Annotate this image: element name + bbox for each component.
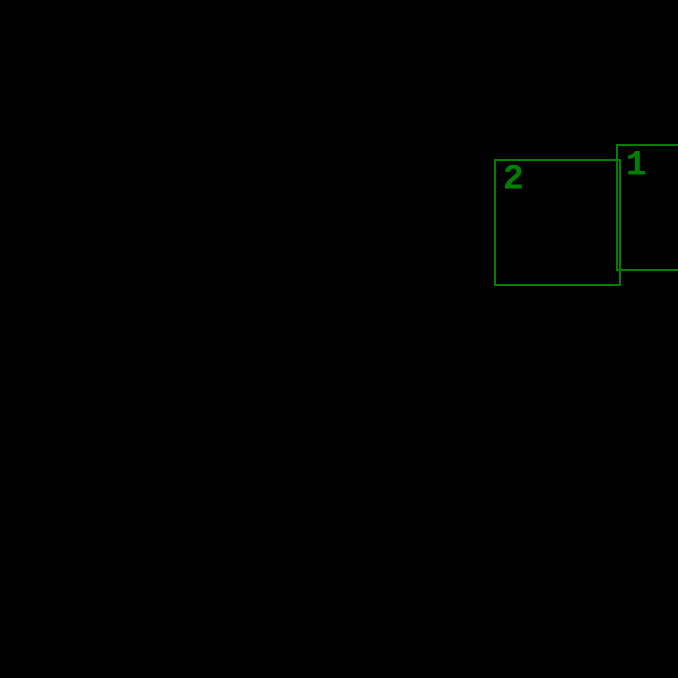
square 1 [617, 145, 678, 270]
svg-text:2: 2 [503, 160, 524, 200]
square 2 [495, 160, 620, 285]
svg-text:1: 1 [626, 146, 647, 186]
